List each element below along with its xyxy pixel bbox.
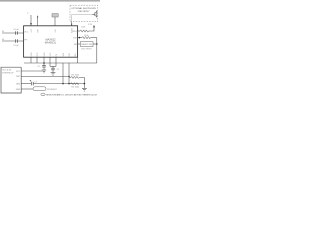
svg-text:GND: GND [31,52,33,57]
svg-text:SYSTEM uP: SYSTEM uP [2,72,14,74]
capacitor C2 [15,39,17,42]
wire rail drop F [68,63,70,84]
pin labels right [72,31,77,46]
svg-text:0.1µF: 0.1µF [14,29,20,31]
capacitor C4 polarized [31,82,33,86]
svg-text:R1 100k: R1 100k [72,74,79,76]
capacitor C3 [52,66,54,68]
svg-text:3.3V: 3.3V [88,24,93,26]
wire left input row 1 [2,32,24,34]
wire right bus down [96,38,98,63]
supply terminal VIN [52,14,58,17]
svg-text:WDI: WDI [63,52,65,56]
node C junction dot [43,62,45,64]
wire rail drop E [62,63,64,84]
wire uP pin 1 [21,70,42,72]
node E junction dot [62,83,64,85]
wire VCC stub with arrow [30,15,32,26]
supply arrow VCC right [93,25,95,28]
wire pin row right 1 [78,30,80,32]
wire IC bottom right corner drop [77,57,79,63]
wire SHDN arrowhead [71,24,73,26]
pin labels bottom [31,52,77,57]
svg-text:PFI: PFI [24,39,27,41]
pushbutton box S1 [80,42,93,47]
svg-text:CIRCUITRY: CIRCUITRY [78,11,90,13]
svg-text:PFO: PFO [37,52,39,56]
node D junction dot [68,76,70,78]
wire IC bottom pin 5 [55,57,57,66]
wire R2 to right bus [91,37,97,39]
resistor R3 [69,76,84,78]
svg-text:R2 100k: R2 100k [72,87,79,89]
wire from supply to IC top [54,17,56,26]
wire SHDN from dashed box to IC [71,22,73,26]
svg-text:C2: C2 [35,82,37,84]
ground [82,87,87,89]
wire uP pin 4 [21,88,33,90]
svg-text:MAX813L: MAX813L [45,41,57,45]
svg-text:VCC: VCC [16,71,21,73]
svg-text:C3: C3 [37,66,39,68]
note caption [41,93,97,96]
svg-text:VCC 3.3V: VCC 3.3V [2,70,12,72]
node F junction dot [68,83,70,85]
svg-text:C1: C1 [57,69,59,71]
top grey bar [0,0,100,2]
wire uP pin 2 [21,75,69,77]
svg-text:100k: 100k [81,26,85,28]
wire cap tie bar [50,65,56,67]
wire ground rail [24,62,97,64]
wire after C4 [33,83,84,85]
node G junction dot [84,83,86,85]
svg-text:RESISTORS ARE 1%. CIRCUITS BEY: RESISTORS ARE 1%. CIRCUITS BEYOND THRESH… [46,93,97,96]
svg-text:GND: GND [16,89,21,91]
resistor R2 [82,37,91,39]
pin labels top [31,27,74,33]
svg-text:100k: 100k [84,35,88,37]
svg-text:OPTIONAL SHUTDOWN: OPTIONAL SHUTDOWN [71,7,96,10]
wire IC bottom pin 1 [30,57,32,63]
wire left input row 2 [2,40,24,42]
wire shutdown internal [71,15,73,22]
op-amp U1 main IC box [24,26,78,57]
microprocessor U2 box [1,67,21,93]
transistor Q1 [96,11,98,18]
wire up arrowhead [37,15,39,17]
ground [51,72,56,74]
wire IC bottom pin 4 [49,57,51,66]
svg-text:WDI: WDI [16,83,20,85]
resistor R1 [80,30,89,32]
resistor R4 [69,83,79,85]
optional shutdown circuitry dashed box [70,5,98,21]
svg-text:RESET SW: RESET SW [81,44,92,46]
svg-text:0.1µF: 0.1µF [14,45,20,47]
svg-text:WDO: WDO [72,31,77,33]
wire box to right bus [93,43,97,45]
capacitor C5 [42,65,46,67]
wire IC bottom pin 2 [36,57,38,63]
wire R1 to VCC arrow [89,27,94,31]
wire RESET stub up arrow [37,17,39,26]
wire pin row right 2 [78,37,82,39]
wire uP pin 3 [21,83,31,85]
svg-text:PB RESET: PB RESET [47,89,58,91]
node H left stub dot [30,23,32,25]
pushbutton pill S2 [33,87,46,91]
wire pin row right 3 [78,43,81,45]
node A junction dot [79,37,81,39]
capacitor C1 [15,31,17,34]
wire IC bottom pin 3 [43,57,45,65]
ground [42,69,46,71]
svg-text:VCC: VCC [24,31,29,33]
wire divider right bus [83,77,85,88]
svg-text:GND: GND [44,52,46,57]
node B junction dot [96,43,98,45]
svg-text:SW1 RESET: SW1 RESET [81,49,93,51]
